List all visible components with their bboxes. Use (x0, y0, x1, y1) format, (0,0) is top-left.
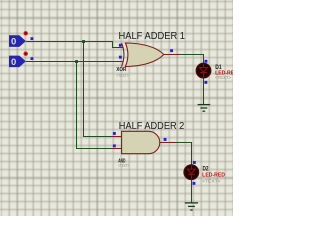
label TEXT placeholder XOR (116, 73, 129, 78)
svg-text:D2: D2 (203, 165, 209, 172)
LED D2 cathode pin (191, 180, 193, 185)
state square D2 anode (193, 161, 196, 164)
state square D1 cathode (204, 81, 207, 84)
gate U2 AND pin B (112, 148, 122, 150)
gate U2 AND output pin (160, 142, 175, 144)
logic state input 2 state square (logic 0) (31, 57, 34, 60)
svg-text:HALF ADDER 2: HALF ADDER 2 (119, 121, 185, 132)
label HALF ADDER 2 (119, 121, 185, 132)
svg-text:HALF ADDER 1: HALF ADDER 1 (119, 31, 186, 42)
svg-text:<TEXT>: <TEXT> (116, 73, 129, 78)
logic state input 1 body (9, 35, 26, 47)
ground G1 (198, 105, 211, 112)
wire branch B down to AND input B (77, 62, 113, 149)
svg-text:<TEXT>: <TEXT> (215, 75, 231, 80)
label TEXT placeholder AND (118, 163, 129, 168)
svg-text:0: 0 (11, 57, 16, 68)
state square D2 cathode (193, 182, 196, 185)
LED D2 anode pin (191, 162, 193, 166)
logic state input 2 toggle red dot (24, 52, 28, 56)
state square XOR output (170, 49, 173, 52)
wire W1 input1 to XOR input A (with jog) (34, 42, 117, 48)
gate U2 AND body (122, 131, 160, 153)
logic state input 1 pin (26, 41, 34, 43)
label D2 value LED-RED (202, 172, 225, 178)
background grid (0, 0, 235, 218)
junction A on W1 (82, 40, 85, 43)
LED D2 body (184, 165, 198, 179)
state square D1 anode (205, 60, 208, 63)
label D2 TEXT placeholder (202, 178, 221, 183)
state square AND output (164, 138, 167, 141)
svg-text:<TEXT>: <TEXT> (202, 178, 221, 183)
state square XOR input B (119, 56, 122, 59)
LED D1 body (196, 63, 210, 77)
label XOR (116, 67, 127, 73)
svg-text:<TEXT>: <TEXT> (118, 163, 129, 168)
label D1 TEXT placeholder (215, 75, 231, 80)
label HALF ADDER 1 (119, 31, 186, 42)
state square AND input B (113, 144, 116, 147)
LED D1 cathode pin (203, 78, 205, 84)
gate U1 XOR pin A (117, 47, 124, 49)
wire W2 input2 to XOR input B (34, 61, 117, 63)
state square AND input A (113, 132, 116, 135)
label D1 (215, 64, 222, 71)
state square XOR input A (119, 44, 122, 47)
wire D2 cathode to ground G2 (191, 184, 193, 203)
wire D1 cathode to ground G1 (203, 84, 205, 105)
LED D1 anode pin (203, 60, 205, 64)
wire AND output to D2 anode (175, 143, 192, 162)
label D1 value LED-RED (215, 70, 238, 76)
wire branch A down to AND input A (84, 42, 113, 137)
wire XOR output to D1 anode (180, 55, 204, 61)
logic state input 1 state square (logic 0) (31, 37, 34, 40)
junction B on W2 (75, 60, 78, 63)
gate U1 XOR pin B (117, 61, 124, 63)
gate U2 AND pin A (112, 136, 122, 138)
label D2 (203, 165, 209, 172)
ground G2 (185, 203, 198, 210)
svg-text:0: 0 (11, 37, 16, 48)
logic state input 1 toggle red dot (24, 31, 28, 35)
gate U1 XOR body (122, 43, 164, 67)
label AND (118, 158, 126, 164)
logic state input 2 pin (26, 61, 34, 63)
gate U1 XOR output pin (164, 54, 180, 56)
logic state input 2 body (9, 56, 26, 68)
